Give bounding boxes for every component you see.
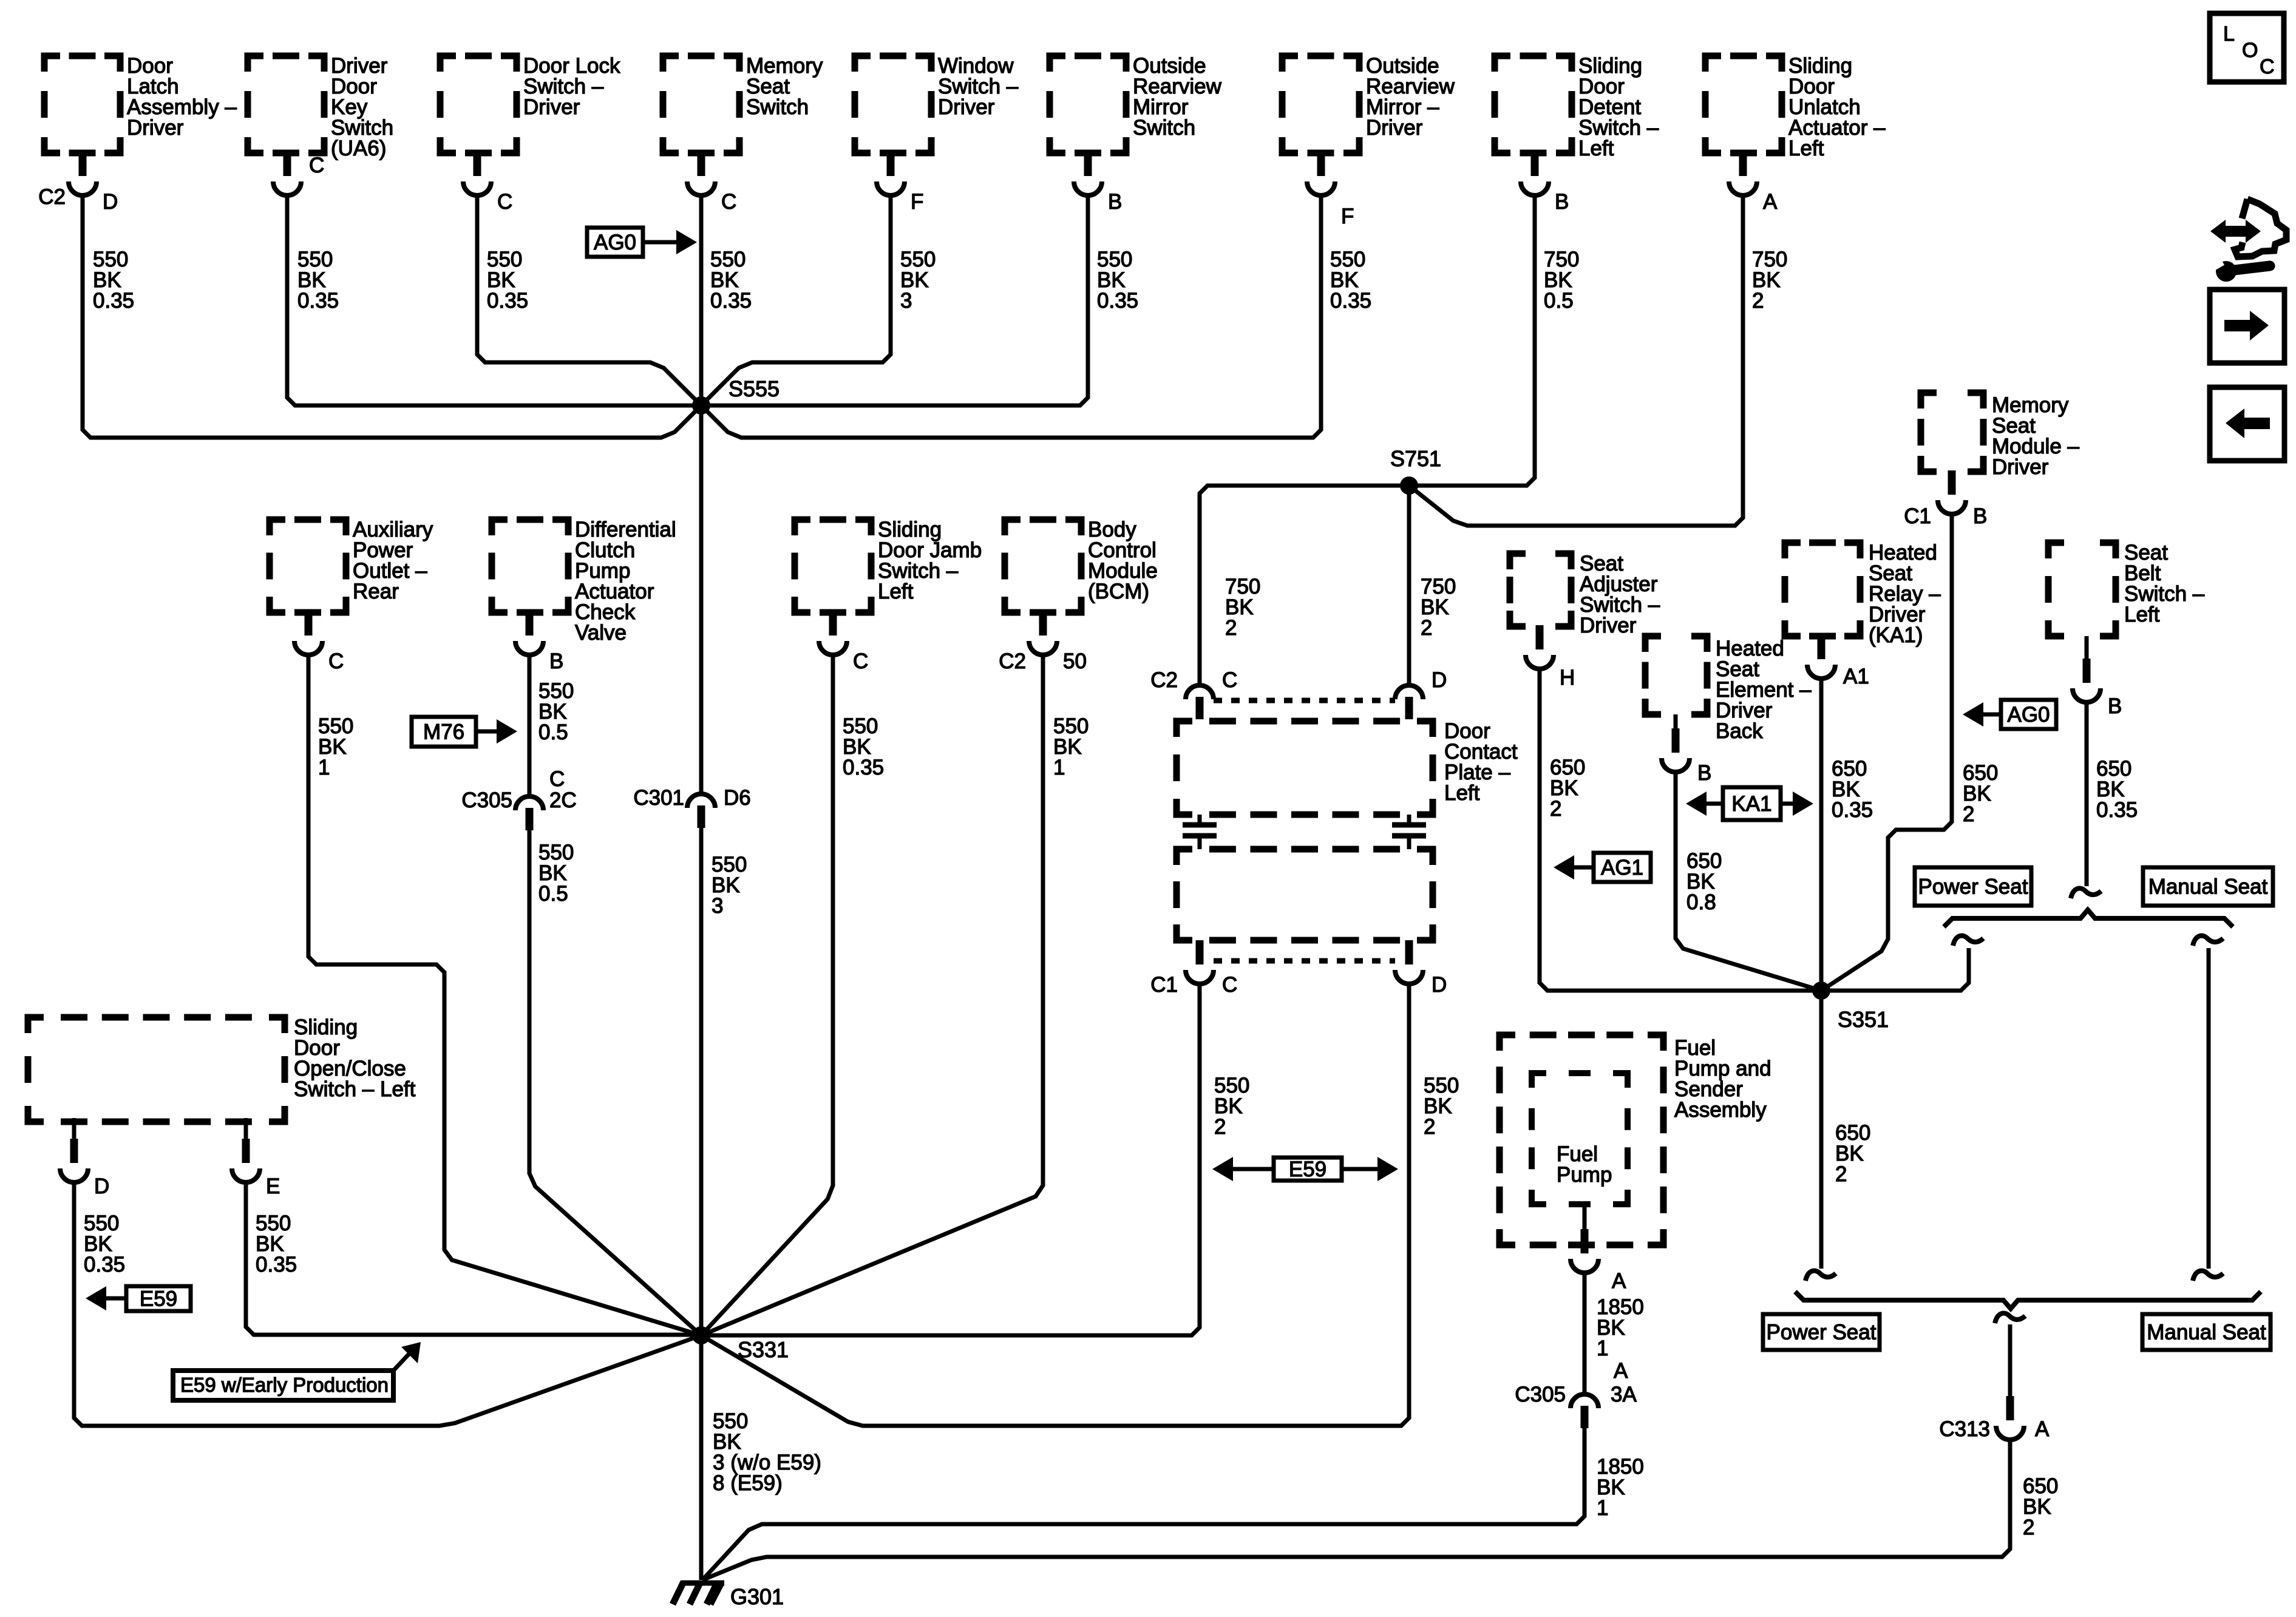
svg-text:50: 50 (1063, 649, 1087, 673)
vehicle navigation icon (double arrow, panel outline, wrench) (2208, 199, 2286, 282)
svg-text:0.35: 0.35 (2096, 798, 2138, 822)
wire: Auxiliary Power Outlet C to S331 (jog via x=732) (308, 655, 701, 1335)
svg-text:0.35: 0.35 (256, 1253, 297, 1276)
svg-text:Switch – Left: Switch – Left (294, 1077, 416, 1101)
wire value label 1850 BK 1 (lower) (1597, 1455, 1644, 1520)
connector C305 inline (Diff Clutch) (461, 767, 576, 830)
wire: Memory Seat Switch C down to S555 (699, 195, 704, 405)
label box KA1 with double arrows (1686, 787, 1813, 820)
component box: Sliding Door Detent Switch - Left (1495, 54, 1659, 160)
connector pin C of Sliding Door Jamb Switch - Left (819, 611, 868, 673)
wire value label 750 BK 0.5 for Sliding Door Detent Switch - Left (1544, 248, 1579, 313)
connector pin C of Door Lock Switch - Driver (463, 152, 512, 214)
connector pin D of Sliding Door Open/Close Switch (60, 1118, 109, 1198)
wire: switch D to S331 (via bottom-left) (74, 1181, 701, 1426)
connector pin B of Outside Rearview Mirror Switch (1074, 152, 1122, 214)
component label: Door Contact Plate - Left (1444, 719, 1518, 805)
wire value label 550 BK 0.35 (Door Jamb) (843, 714, 884, 779)
connector pin F of Outside Rearview Mirror - Driver (1307, 152, 1354, 228)
svg-text:D: D (103, 190, 118, 214)
svg-text:C: C (2260, 55, 2275, 78)
svg-text:1: 1 (1597, 1337, 1608, 1360)
svg-text:Power Seat: Power Seat (1918, 875, 2028, 899)
svg-text:C305: C305 (461, 788, 512, 812)
component box: Auxiliary Power Outlet - Rear (270, 518, 433, 612)
svg-text:0.35: 0.35 (297, 289, 339, 313)
svg-text:AG0: AG0 (2007, 703, 2050, 727)
svg-text:0.35: 0.35 (487, 289, 528, 313)
svg-text:1: 1 (318, 756, 330, 779)
component box: Seat Adjuster Switch - Driver (1510, 552, 1660, 637)
wire value label 750 BK 2 for Sliding Door Unlatch Actuator - Left (1752, 248, 1787, 313)
svg-text:2: 2 (1752, 289, 1764, 313)
connector pin C of Auxiliary Power Outlet - Rear (294, 611, 344, 673)
upper option brace (1944, 910, 2233, 927)
node S331 junction dot (692, 1326, 710, 1344)
wire-end curl (power seat option top) (1953, 936, 1983, 946)
wire value label 550 BK 0.5 (Diff Clutch lower) (538, 841, 574, 906)
wire: C313 to G301 (long horizontal) (702, 1440, 2010, 1580)
svg-text:Driver: Driver (523, 95, 580, 119)
svg-text:C: C (1222, 973, 1237, 997)
svg-text:0.5: 0.5 (1544, 289, 1574, 313)
wire: Sliding Door Unlatch Actuator A to S751 (diagonal) (1409, 195, 1743, 526)
connector pin C of Memory Seat Switch (687, 152, 736, 214)
svg-text:B: B (1108, 190, 1122, 214)
svg-text:0.35: 0.35 (84, 1253, 125, 1276)
svg-text:0.35: 0.35 (1330, 289, 1371, 313)
svg-text:Left: Left (2124, 603, 2160, 626)
wire value label 550 BK 0.35 for Memory Seat Switch (710, 248, 752, 313)
wire-end curl (C313 drop) (1995, 1314, 2025, 1323)
connector pin B of Seat Belt Switch (2073, 636, 2122, 718)
wire value label 650 BK 2 (C313) (2023, 1474, 2058, 1539)
svg-text:D: D (1432, 973, 1447, 997)
wire value label 550 BK 0.35 for Door Latch Assembly - Driver (93, 248, 134, 313)
component box: Window Switch - Driver (855, 54, 1019, 153)
svg-text:S751: S751 (1390, 446, 1441, 471)
svg-text:Driver: Driver (127, 116, 184, 140)
svg-text:0.5: 0.5 (538, 720, 568, 744)
component box: Memory Seat Switch (663, 54, 823, 153)
wire: S351 down to lower option brace (1819, 991, 1824, 1269)
svg-text:C: C (1222, 668, 1237, 692)
svg-text:A: A (2035, 1417, 2050, 1441)
wire: Memory Seat Module B to S351 (jog) (1821, 514, 1952, 991)
svg-text:0.35: 0.35 (843, 756, 884, 779)
svg-text:Driver: Driver (1366, 116, 1423, 140)
svg-text:0.35: 0.35 (1832, 798, 1873, 822)
node S351 junction dot (1812, 981, 1830, 1000)
connector pin B of Heated Seat Element (1662, 714, 1711, 785)
component box: Memory Seat Module - Driver (1921, 393, 2080, 479)
svg-text:(BCM): (BCM) (1088, 580, 1149, 603)
svg-text:8 (E59): 8 (E59) (713, 1471, 783, 1495)
connector pin A of Sliding Door Unlatch Actuator - Left (1729, 152, 1778, 214)
svg-text:2: 2 (1214, 1115, 1226, 1139)
wire: S751 down to contact plate D (1407, 486, 1411, 686)
connector C313 (1939, 1396, 2050, 1441)
svg-text:A: A (1763, 190, 1778, 214)
svg-text:C: C (721, 190, 736, 214)
svg-text:Driver: Driver (938, 95, 995, 119)
wire: switch E to S331 (left horizontal) (246, 1181, 701, 1335)
component box: Heated Seat Element - Driver Back (1645, 636, 1812, 743)
wire: Door Latch D to S555 (lower-left) (83, 195, 701, 438)
svg-text:2: 2 (2023, 1516, 2034, 1539)
connector C1/C bottom-left of contact plate (1150, 940, 1237, 997)
svg-text:G301: G301 (730, 1584, 784, 1609)
connector C2/C top-left of contact plate (dome) (1150, 668, 1237, 719)
svg-text:KA1: KA1 (1731, 792, 1771, 816)
svg-text:Back: Back (1716, 719, 1763, 743)
svg-text:E59 w/Early Production: E59 w/Early Production (180, 1374, 389, 1396)
label box E59 (double arrow between contact plate wires) (1212, 1157, 1398, 1181)
svg-text:C2: C2 (999, 649, 1026, 673)
wire: contact plate C1-C down to S331 right horizontal (701, 984, 1200, 1335)
connector pin C of Driver Door Key Switch (273, 152, 324, 195)
component box: Door Lock Switch - Driver (440, 54, 620, 153)
svg-text:F: F (1341, 205, 1354, 228)
svg-text:A: A (1612, 1269, 1626, 1293)
ground symbol G301 (673, 1582, 724, 1604)
wire: brace cusp down to C313 (2008, 1324, 2012, 1396)
node label S555 (729, 376, 779, 401)
wire value label 750 BK 2 (left of contact plate) (1225, 575, 1260, 640)
wire: Differential Clutch C305 to S331 (45&#176; diagonal) (529, 830, 701, 1335)
wire: contact plate D down to S331 (lower-right diagonal) (701, 984, 1409, 1426)
connector pin D of Door Latch Assembly - Driver (38, 152, 118, 214)
wire value label 550 BK 0.35 for Outside Rearview Mirror Switch (1097, 248, 1138, 313)
connector C301 inline (633, 786, 750, 828)
svg-text:0.5: 0.5 (538, 882, 568, 906)
wire value label 650 BK 0.35 (Seat Belt Switch) (2096, 757, 2138, 822)
connector C305 inline (fuel pump) (1515, 1359, 1637, 1428)
svg-text:Driver: Driver (1992, 455, 2049, 479)
component box: Sliding Door Open/Close Switch - Left (28, 1015, 416, 1122)
wire value label 550 BK 0.35 (pin E) (256, 1212, 297, 1276)
wire value label 550 BK 2 (right below contact plate) (1424, 1074, 1459, 1139)
wire: Differential Clutch wire C305 upper segment (528, 655, 532, 796)
wire value label 650 BK 2 (Seat Adjuster) (1550, 756, 1585, 821)
svg-text:Driver: Driver (1580, 614, 1637, 637)
svg-text:C301: C301 (633, 786, 684, 810)
svg-text:A: A (1614, 1359, 1628, 1383)
wire: S555 down to C301 (699, 405, 704, 794)
wire: S751 left horizontal to contact plate left drop (1200, 486, 1409, 686)
forward reference arrow box (2210, 290, 2284, 363)
connector pin B of Differential Clutch Pump Actuator Check Valve (515, 611, 563, 673)
svg-text:Left: Left (1578, 137, 1614, 160)
option label box Manual Seat (upper) (2143, 867, 2273, 906)
svg-text:S351: S351 (1838, 1007, 1889, 1032)
wire: Sliding Door Detent Switch B to S751 (1409, 195, 1535, 486)
wire value label 550 BK 3 (w/o E59) 8 (E59) (713, 1409, 821, 1495)
wire: S331 down to G301 (699, 1335, 704, 1580)
svg-text:C: C (853, 649, 868, 673)
svg-text:E59: E59 (140, 1287, 177, 1311)
label box E59 with left arrow (86, 1286, 191, 1311)
wire: Seat Adjuster H to S351 (1540, 669, 1821, 991)
wire: manual seat option vertical (2207, 948, 2211, 1269)
component box: Driver Door Key Switch (248, 54, 393, 160)
svg-text:Left: Left (878, 580, 914, 603)
svg-text:0.8: 0.8 (1686, 890, 1716, 914)
svg-text:O: O (2242, 39, 2258, 62)
LOC reference box (2210, 13, 2284, 82)
component box: Seat Belt Switch - Left (2048, 541, 2205, 636)
svg-text:2: 2 (1550, 797, 1561, 821)
node label S351 (1838, 1007, 1889, 1032)
svg-text:Switch: Switch (1133, 116, 1195, 140)
connector pin H of Seat Adjuster Switch (1526, 625, 1575, 690)
wire value label 550 BK 3 for Window Switch - Driver (900, 248, 936, 313)
component box: Fuel Pump and Sender Assembly (outer) (1500, 1035, 1771, 1245)
svg-text:1: 1 (1053, 756, 1065, 779)
svg-text:B: B (549, 649, 563, 673)
svg-text:F: F (911, 190, 923, 214)
connector pin A of Fuel Pump (1571, 1229, 1626, 1293)
connector pin B of Memory Seat Module (1904, 470, 1987, 528)
option label box Power Seat (upper) (1915, 867, 2031, 906)
svg-text:AG1: AG1 (1601, 856, 1643, 880)
svg-text:C2: C2 (38, 185, 66, 209)
svg-text:C1: C1 (1904, 504, 1931, 528)
connector pin A1 of Heated Seat Relay (1807, 635, 1869, 688)
svg-text:S331: S331 (738, 1337, 789, 1362)
svg-text:H: H (1560, 666, 1575, 690)
wire value label 650 BK 2 (Memory Seat Module) (1963, 761, 1998, 826)
svg-text:C1: C1 (1150, 973, 1178, 997)
label box E59 w/Early Production with arrow (173, 1342, 421, 1400)
svg-text:C313: C313 (1939, 1417, 1990, 1441)
svg-text:C305: C305 (1515, 1383, 1566, 1406)
wire: Seat Belt Switch B down to option brace (2085, 702, 2089, 886)
component box: Fuel Pump (inner) (1532, 1073, 1628, 1204)
backward reference arrow box (2210, 387, 2284, 461)
wire-end curl (manual seat top) (2193, 936, 2223, 946)
door contact plate lower dashed box (1177, 849, 1433, 940)
svg-text:C: C (328, 649, 344, 673)
wire-end curl (power seat option bottom) (1805, 1271, 1836, 1281)
wire value label 550 BK 0.35 for Driver Door Key Switch (297, 248, 339, 313)
component box: Sliding Door Unlatch Actuator - Left (1705, 54, 1886, 160)
wire value label 550 BK 0.35 for Door Lock Switch - Driver (487, 248, 528, 313)
dotted bus line top of door contact plate (1214, 698, 1395, 703)
lower option brace (1795, 1292, 2261, 1309)
wire value label 550 BK 3 (below C301) (712, 853, 747, 918)
wire value label 550 BK 1 (Auxiliary Power Outlet) (318, 714, 353, 779)
connector pin F of Window Switch - Driver (877, 152, 923, 214)
svg-text:2: 2 (1421, 616, 1432, 640)
wire value label 1850 BK 1 (upper) (1597, 1295, 1644, 1360)
component box: Sliding Door Jamb Switch - Left (795, 518, 982, 612)
wire: S351 right to power-seat option stub (1821, 948, 1969, 991)
wire: BCM 50 to S331 (shallow diagonal) (701, 655, 1043, 1335)
svg-text:S555: S555 (729, 376, 779, 401)
wire-end curl (seat belt switch) (2071, 889, 2101, 898)
svg-text:Switch: Switch (746, 95, 809, 119)
label box AG1 with left arrow (1554, 853, 1651, 882)
wire value label 550 BK 0.5 (Diff Clutch upper) (538, 679, 574, 744)
svg-text:E: E (266, 1175, 280, 1198)
svg-text:3: 3 (900, 289, 912, 313)
component box: Differential Clutch Pump Actuator Check Valve (492, 518, 676, 645)
svg-text:(KA1): (KA1) (1869, 623, 1923, 647)
svg-text:Rear: Rear (353, 580, 399, 603)
wire value label 550 BK 1 (BCM) (1053, 714, 1089, 779)
node label G301 (730, 1584, 784, 1609)
svg-text:3A: 3A (1611, 1383, 1637, 1406)
svg-text:C: C (549, 767, 565, 791)
wire: Outside Rearview Mirror Switch B to S555 (mid-right horizontal) (701, 195, 1088, 405)
component box: Outside Rearview Mirror - Driver (1282, 54, 1455, 153)
wire: Driver Door Key Switch C to S555 (mid-left horizontal) (287, 195, 701, 405)
svg-text:2: 2 (1424, 1115, 1435, 1139)
connector pin E of Sliding Door Open/Close Switch (232, 1118, 280, 1198)
svg-text:Left: Left (1788, 137, 1824, 160)
wire: Window Switch F to S555 (upper-right) (701, 195, 891, 405)
svg-text:1: 1 (1597, 1496, 1608, 1520)
svg-text:3: 3 (712, 894, 723, 918)
svg-text:0.35: 0.35 (93, 289, 134, 313)
svg-text:B: B (1555, 190, 1569, 214)
option label box Manual Seat (lower) (2142, 1314, 2271, 1350)
wire value label 650 BK 2 (below S351) (1835, 1121, 1870, 1186)
wire: fuel pump A down to C305 (1583, 1273, 1587, 1394)
wire: fuel C305 to G301 (long horizontal) (702, 1428, 1584, 1580)
svg-text:2: 2 (1835, 1162, 1847, 1186)
wire: Sliding Door Jamb Switch C to S331 (45&#176; diagonal) (701, 655, 833, 1335)
wire value label 750 BK 2 (right of contact plate) (1421, 575, 1456, 640)
component box: Heated Seat Relay - Driver (KA1) (1785, 541, 1941, 647)
svg-text:Manual Seat: Manual Seat (2147, 1321, 2266, 1344)
svg-text:2: 2 (1225, 616, 1237, 640)
svg-text:Power Seat: Power Seat (1767, 1321, 1877, 1344)
node label S331 (738, 1337, 789, 1362)
wire: Door Lock Switch C to S555 (upper-left) (477, 195, 701, 405)
svg-text:L: L (2223, 22, 2235, 46)
svg-text:D: D (94, 1175, 109, 1198)
svg-text:2: 2 (1963, 802, 1974, 826)
svg-text:C: C (309, 154, 324, 177)
connector pin B of Sliding Door Detent Switch - Left (1521, 152, 1569, 214)
door contact plate upper dashed box (1177, 721, 1433, 815)
svg-text:AG0: AG0 (594, 231, 636, 254)
svg-text:D6: D6 (724, 786, 751, 810)
door contact symbol right (plates) (1392, 815, 1426, 849)
node S751 junction dot (1400, 476, 1418, 495)
svg-text:0.35: 0.35 (710, 289, 752, 313)
connector pin 50 of Body Control Module (BCM) (999, 611, 1087, 673)
svg-text:M76: M76 (423, 720, 464, 744)
dotted bus line bottom of door contact plate (1214, 958, 1395, 964)
svg-text:B: B (1973, 504, 1987, 528)
wire value label 550 BK 0.35 for Outside Rearview Mirror - Driver (1330, 248, 1371, 313)
door contact symbol left (plates) (1183, 815, 1217, 849)
wire value label 550 BK 0.35 (pin D) (84, 1212, 125, 1276)
svg-text:B: B (1697, 761, 1711, 785)
node label S751 (1390, 446, 1441, 471)
svg-text:0.35: 0.35 (1097, 289, 1138, 313)
svg-text:Valve: Valve (575, 621, 627, 645)
svg-text:Manual Seat: Manual Seat (2148, 875, 2268, 899)
wire-end curl (manual seat bottom) (2193, 1271, 2223, 1281)
svg-text:2C: 2C (549, 788, 577, 812)
wire value label 650 BK 0.8 (Heated Seat Element) (1686, 849, 1722, 914)
connector D top-right of contact plate (dome) (1395, 668, 1447, 719)
label box AG0 (right) with left arrow (1963, 700, 2056, 729)
option label box Power Seat (lower) (1763, 1314, 1880, 1350)
svg-text:E59: E59 (1289, 1158, 1326, 1181)
wire: C301 down to S331 (699, 828, 704, 1335)
svg-text:Pump: Pump (1557, 1163, 1612, 1187)
component box: Door Latch Assembly - Driver (44, 54, 237, 153)
connector D bottom-right of contact plate (1395, 940, 1447, 997)
label box M76 with right arrow (412, 717, 517, 747)
wire value label 650 BK 0.35 (Heated Seat Relay) (1832, 757, 1873, 822)
svg-text:Left: Left (1444, 781, 1480, 805)
svg-text:Assembly: Assembly (1674, 1098, 1767, 1122)
node S555 junction dot (692, 396, 710, 415)
component box: Body Control Module (BCM) (1005, 518, 1158, 612)
wire value label 550 BK 2 (left below contact plate) (1214, 1074, 1249, 1139)
wire: Heated Seat Element B to S351 (diagonal) (1676, 771, 1821, 991)
svg-text:D: D (1432, 668, 1447, 692)
svg-text:C2: C2 (1150, 668, 1178, 692)
svg-text:B: B (2108, 694, 2122, 718)
svg-text:A1: A1 (1843, 665, 1869, 688)
wire: Outside Rearview Mirror Driver F to S555 (lower-right) (701, 195, 1321, 438)
component box: Outside Rearview Mirror Switch (1050, 54, 1222, 153)
svg-text:(UA6): (UA6) (331, 137, 386, 160)
label box AG0 (top) with right arrow (587, 228, 697, 257)
wire: fuel pump pin segment (1583, 1204, 1587, 1230)
svg-text:C: C (497, 190, 512, 214)
wire: Heated Seat Relay A1 down to S351 (1819, 679, 1824, 991)
